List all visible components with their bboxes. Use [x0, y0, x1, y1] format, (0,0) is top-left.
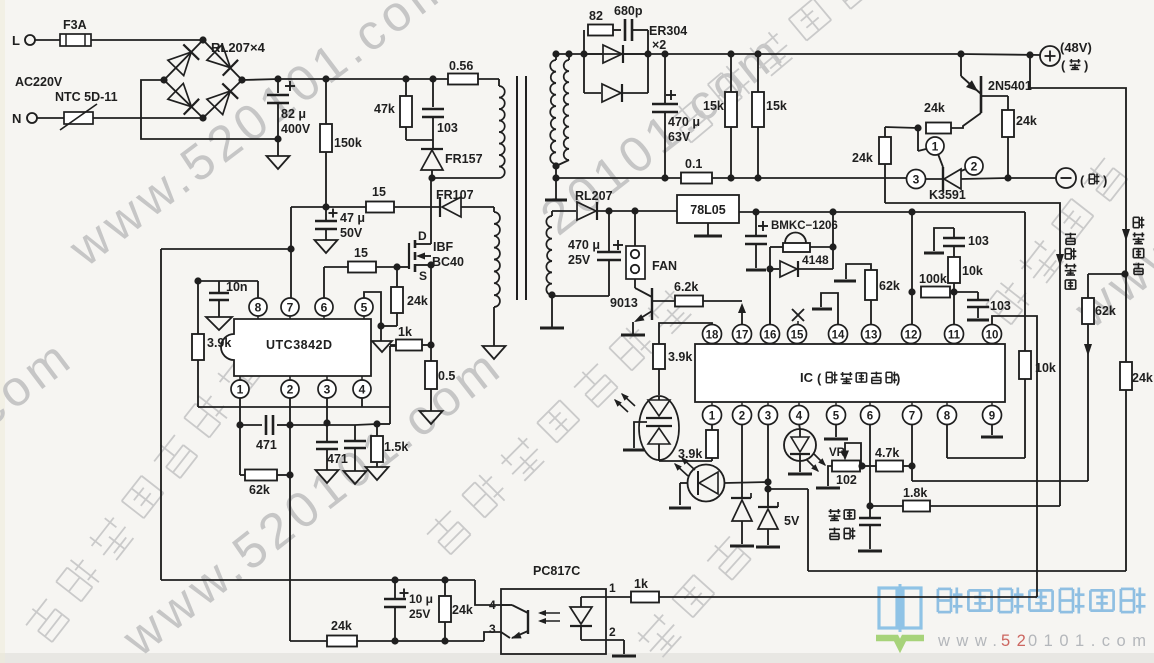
- ground 10n: [206, 317, 232, 330]
- wire FR157 anode to drain node: [431, 170, 433, 178]
- svg-text:3.9k: 3.9k: [668, 350, 692, 364]
- wire RT bus y407: [198, 406, 390, 408]
- pin 5 U1: [355, 298, 373, 316]
- node bridge top: [199, 36, 206, 43]
- wire 6.2k to pin17: [703, 300, 742, 302]
- ground pin9: [991, 424, 993, 435]
- node pin6: [866, 502, 873, 509]
- wire pin1 down: [711, 424, 713, 430]
- capacitor 470u25V: [608, 211, 610, 251]
- svg-text:): ): [1103, 173, 1107, 188]
- svg-text:24k: 24k: [1132, 371, 1153, 385]
- pin 2 U2: [733, 406, 752, 425]
- ground cap pin6: [858, 550, 882, 553]
- wire snubber junction: [406, 139, 433, 141]
- svg-text:24k: 24k: [407, 294, 428, 308]
- resistor 0.5 shunt: [430, 345, 432, 361]
- ground led D7: [788, 473, 812, 476]
- svg-text:103: 103: [968, 234, 989, 248]
- svg-text:9: 9: [989, 411, 995, 423]
- svg-text:6: 6: [867, 411, 873, 423]
- diode zener 5V pin3: [758, 506, 778, 508]
- resistor 24k v-divider: [1120, 362, 1132, 390]
- transformer primary winding: [499, 86, 505, 178]
- ground led tap: [623, 449, 645, 452]
- node pin5 gnd: [377, 322, 384, 329]
- svg-text:15k: 15k: [703, 99, 724, 113]
- wire pin6 to 15R: [323, 267, 325, 298]
- wire primary bottom to drain node: [432, 177, 499, 179]
- transistor Q1 MOSFET gate bar: [397, 266, 409, 268]
- node 10u top: [391, 576, 398, 583]
- IC U1 UTC3842D body: [221, 319, 371, 376]
- svg-text:5: 5: [833, 411, 840, 423]
- wire pin3 down: [326, 398, 328, 423]
- node sec bottom join: [552, 162, 559, 169]
- node pin2 a: [286, 421, 293, 428]
- svg-text:470 μ: 470 μ: [568, 238, 600, 252]
- capacitor 5V filter: [755, 212, 757, 236]
- resistor 15k B: [757, 54, 759, 92]
- pin 2 K3591: [961, 169, 966, 171]
- wire current sense feed: [885, 203, 1060, 506]
- led dual D5 bottom chip: [646, 425, 672, 427]
- node 470u25 top: [605, 207, 612, 214]
- wire fuse to bridge top: [91, 39, 203, 41]
- pin 17 U2: [733, 325, 752, 344]
- svg-text:78L05: 78L05: [690, 203, 725, 217]
- watermark h2: [423, 286, 694, 557]
- capacitor 471 comp: [240, 424, 262, 426]
- resistor 15 gate: [348, 262, 376, 273]
- resistor 24k opto-c: [444, 580, 446, 596]
- bridge rectifier RL207x4 frame: [164, 40, 242, 118]
- svg-text:3: 3: [913, 173, 920, 187]
- resistor 4.7k: [863, 465, 876, 467]
- svg-text:82: 82: [589, 9, 603, 23]
- wire 78L05 out 5V rail: [739, 211, 1025, 213]
- svg-text:FR107: FR107: [436, 188, 474, 202]
- capacitor 47u50V: [325, 207, 327, 220]
- svg-text:3: 3: [324, 383, 331, 397]
- node gate: [393, 263, 400, 270]
- svg-text:6.2k: 6.2k: [674, 280, 698, 294]
- wire vcc-left rail: [161, 248, 291, 250]
- svg-text:62k: 62k: [1095, 304, 1116, 318]
- arrow into pin17: [738, 303, 746, 313]
- pin 4 U1: [353, 380, 371, 398]
- svg-text:15: 15: [372, 185, 386, 199]
- wire opto pin1 to pin10 riser: [659, 596, 1037, 598]
- wire aux winding to ground: [493, 307, 495, 346]
- watermark w4: [530, 22, 795, 246]
- svg-text:3: 3: [489, 622, 496, 636]
- svg-text:17: 17: [736, 330, 749, 342]
- svg-text:L: L: [12, 33, 20, 48]
- svg-text:K3591: K3591: [929, 188, 966, 202]
- svg-text:1: 1: [709, 411, 716, 423]
- node snubber left: [580, 50, 587, 57]
- diode zener pin2: [731, 497, 751, 499]
- node 24k-c top: [441, 576, 448, 583]
- svg-text:BC40: BC40: [432, 255, 464, 269]
- svg-text:3: 3: [765, 411, 771, 423]
- transistor Q1 drain lead: [415, 243, 431, 245]
- svg-text:8: 8: [944, 411, 951, 423]
- svg-text:7: 7: [909, 411, 915, 423]
- wire base node to 24k vert: [885, 127, 918, 128]
- node pin1 a: [236, 421, 243, 428]
- pin 8 U1: [249, 298, 267, 316]
- svg-text:(: (: [1080, 173, 1085, 188]
- svg-text:15: 15: [791, 330, 804, 342]
- pin 12 U2: [902, 325, 921, 344]
- svg-text:82 μ: 82 μ: [281, 107, 306, 121]
- terminal + 48V: [1040, 46, 1060, 66]
- wire FR107 to aux winding: [461, 206, 494, 208]
- node 24k base left: [914, 124, 921, 131]
- scan shadow left edge: [0, 0, 5, 663]
- pin 10 U2: [983, 325, 1002, 344]
- svg-text:1: 1: [237, 383, 244, 397]
- node 24k-c bottom: [441, 637, 448, 644]
- resistor 82 snubber: [583, 30, 585, 54]
- node pin12 5V: [908, 208, 915, 215]
- capacitor pin6: [869, 506, 871, 517]
- svg-text:1k: 1k: [398, 325, 412, 339]
- svg-text:ER304: ER304: [649, 24, 687, 38]
- ground opto pin2: [612, 655, 636, 658]
- led D6 indicator: [688, 465, 725, 502]
- node VCC: [322, 203, 329, 210]
- transistor Q3 9013: [634, 279, 636, 288]
- wire pin7 down: [911, 424, 913, 481]
- wire buzzer right: [810, 246, 833, 248]
- node 103 top: [429, 75, 436, 82]
- node bridge bottom: [199, 114, 206, 121]
- svg-text:www.: www.: [937, 632, 1003, 650]
- resistor 1.5k: [376, 424, 378, 436]
- wire gate node up: [396, 267, 398, 287]
- svg-text:13: 13: [865, 330, 878, 342]
- resistor 0.56: [448, 74, 478, 85]
- resistor 10k chain: [1019, 351, 1031, 379]
- watermark h1: [22, 349, 264, 644]
- pin 13 U2: [862, 325, 881, 344]
- transistor Q1 source lead: [415, 264, 431, 266]
- wire C-bulk to ground node: [277, 103, 279, 139]
- wire L to fuse: [35, 39, 60, 41]
- diode RL207 sec: [552, 210, 576, 212]
- wire bridge right to HV rail: [242, 79, 278, 80]
- diode ER304 no1: [584, 53, 602, 55]
- node pin2 b: [286, 471, 293, 478]
- pin 18 U2: [703, 325, 722, 344]
- bridge diode D4 bottom-right: [207, 91, 230, 115]
- node v-sense 62k: [1121, 270, 1128, 277]
- svg-text:24k: 24k: [452, 603, 473, 617]
- svg-text:100k: 100k: [919, 272, 947, 286]
- capacitor 103 pin11b: [954, 291, 978, 293]
- label charging voltage: [1132, 217, 1134, 227]
- diode FR157: [421, 150, 443, 170]
- svg-text:D: D: [418, 229, 427, 243]
- wire pin12 riser: [911, 212, 913, 325]
- node C-bulk top: [274, 75, 281, 82]
- resistor 62k comp: [239, 470, 241, 475]
- node sec 0V: [552, 174, 559, 181]
- svg-text:1k: 1k: [634, 577, 648, 591]
- pin 16 U2: [761, 325, 780, 344]
- IC U2 body: [695, 344, 1005, 402]
- svg-text:10k: 10k: [1035, 361, 1056, 375]
- svg-text:24k: 24k: [331, 619, 352, 633]
- svg-text:10 μ: 10 μ: [409, 592, 433, 606]
- wire opto emitter rail: [290, 640, 484, 642]
- led D7 light arrows: [806, 459, 818, 471]
- node pin7-collector junction: [287, 245, 294, 252]
- pin 3 U1: [318, 380, 336, 398]
- diode 4148: [770, 268, 779, 270]
- led dual D5 top chip: [658, 396, 660, 400]
- svg-text:): ): [1084, 58, 1088, 73]
- diode FR107: [442, 197, 461, 217]
- terminal N: [27, 113, 37, 123]
- svg-text:3.9k: 3.9k: [207, 336, 231, 350]
- svg-text:400V: 400V: [281, 122, 311, 136]
- ground pin5: [380, 326, 382, 341]
- node emitter 2N5401: [957, 50, 964, 57]
- capacitor 470u63V: [664, 54, 666, 103]
- ground secondary: [555, 178, 557, 199]
- node 15kB bottom: [754, 174, 761, 181]
- node 1.5k top: [373, 420, 380, 427]
- svg-text:(: (: [1061, 58, 1066, 73]
- wire VR left ground: [828, 466, 832, 486]
- ground zener pin2: [730, 545, 754, 548]
- node pin3 a: [323, 419, 330, 426]
- node drain-snubber: [428, 174, 435, 181]
- svg-text:25V: 25V: [409, 607, 430, 621]
- ground 0.5: [420, 411, 443, 424]
- wire HV rail: [278, 78, 448, 80]
- ground 78L05: [707, 223, 709, 235]
- node 47k top: [402, 75, 409, 82]
- led dual D5: [639, 396, 679, 460]
- svg-text:(48V): (48V): [1060, 40, 1092, 55]
- svg-text:62k: 62k: [249, 483, 270, 497]
- wire fb bus y425: [290, 424, 355, 426]
- wire pin4 to RT bus: [361, 398, 363, 407]
- resistor 24k fb: [327, 636, 357, 647]
- node pin3 vsense: [764, 485, 771, 492]
- wire 0.56 to primary top: [478, 78, 499, 80]
- node 4148 anode: [766, 265, 773, 272]
- svg-text:103: 103: [990, 299, 1011, 313]
- svg-text:N: N: [12, 111, 21, 126]
- wire pin5 ground: [364, 292, 381, 326]
- logo site name: [937, 589, 940, 612]
- wire pin10 net: [992, 316, 1037, 597]
- pin 4 U2: [790, 406, 809, 425]
- watermark w2: [112, 336, 513, 663]
- svg-text:4: 4: [359, 383, 366, 397]
- svg-text:): ): [896, 371, 900, 386]
- resistor 1k sense: [390, 344, 396, 346]
- wire 0V rail to K3591: [712, 177, 906, 179]
- svg-text:2: 2: [739, 411, 745, 423]
- svg-text:2: 2: [971, 160, 978, 174]
- node 15kA top: [727, 50, 734, 57]
- wire secondary + rail: [556, 53, 961, 55]
- node + branch: [1026, 51, 1033, 58]
- wire pin4 down: [799, 424, 800, 429]
- scan shadow bottom edge: [0, 653, 1154, 663]
- wire 24k-gate to gnd node: [396, 313, 398, 326]
- svg-text:62k: 62k: [879, 279, 900, 293]
- wire pin3 down: [767, 424, 769, 507]
- wire led mid tap: [634, 422, 647, 448]
- pin 15 U2: [788, 325, 807, 344]
- node sec B top: [565, 50, 572, 57]
- svg-text:18: 18: [706, 330, 719, 342]
- opto light arrows: [540, 612, 560, 614]
- pin 1 U1: [231, 380, 249, 398]
- wire 150k to vcc node: [291, 206, 326, 208]
- node 470u63 bottom: [661, 174, 668, 181]
- arrow voltage sense: [1122, 229, 1130, 241]
- watermark w1: [58, 0, 464, 277]
- svg-text:24k: 24k: [924, 101, 945, 115]
- node 150k top: [322, 75, 329, 82]
- svg-text:6: 6: [321, 301, 328, 315]
- capacitor 103 snubber: [432, 79, 434, 107]
- svg-text:4: 4: [796, 411, 803, 423]
- watermark w7: [1064, 209, 1154, 340]
- svg-text:0.5: 0.5: [438, 369, 455, 383]
- svg-text:24k: 24k: [852, 151, 873, 165]
- node 5V rail buzzer: [829, 208, 836, 215]
- ground fan winding: [551, 295, 553, 327]
- node 5V cap: [752, 208, 759, 215]
- svg-text:F3A: F3A: [63, 18, 87, 32]
- resistor 6.2k: [675, 296, 703, 307]
- ground 471A: [316, 470, 339, 483]
- node fan winding bottom: [548, 291, 555, 298]
- wire pin8 vref: [257, 281, 259, 298]
- svg-text:FAN: FAN: [652, 259, 677, 273]
- node 15kA bottom: [727, 174, 734, 181]
- label charging current: [1065, 233, 1076, 235]
- svg-text:10k: 10k: [962, 264, 983, 278]
- wire buzzer left: [770, 246, 783, 248]
- node 10u bottom: [391, 637, 398, 644]
- svg-text:AC220V: AC220V: [15, 75, 63, 89]
- svg-text:4: 4: [489, 598, 496, 612]
- wire v-sense bottom route: [808, 570, 1126, 572]
- regulator K3591: [925, 178, 943, 180]
- svg-text:4.7k: 4.7k: [875, 446, 899, 460]
- capacitor 103 pin11: [953, 246, 955, 257]
- trimmer VR 102: [832, 461, 860, 472]
- svg-text:150k: 150k: [334, 136, 362, 150]
- svg-text:8: 8: [255, 301, 262, 315]
- wire N to NTC: [37, 117, 64, 119]
- transistor Q1 channel: [414, 240, 417, 248]
- bridge diode D3 bottom-left: [168, 83, 192, 106]
- pin 9 U2: [983, 406, 1002, 425]
- svg-text:IC: IC: [800, 370, 814, 385]
- pin 6 U1: [315, 298, 333, 316]
- node VR right: [858, 462, 865, 469]
- wire pin18 net: [659, 323, 712, 344]
- svg-text:11: 11: [948, 330, 961, 342]
- svg-text:7: 7: [287, 301, 294, 315]
- svg-text:1: 1: [932, 140, 939, 154]
- ground pin5: [835, 424, 837, 437]
- transformer core: [516, 76, 518, 300]
- capacitor filter B: [354, 425, 356, 440]
- resistor 3.9k led: [653, 344, 665, 369]
- wire vcc rail to 15R: [326, 206, 366, 208]
- connector FAN: [634, 211, 636, 246]
- resistor 24k ref-top: [879, 137, 891, 164]
- node buzzer right: [829, 243, 836, 250]
- bridge diode D2 top-right: [207, 44, 231, 67]
- svg-text:15: 15: [354, 246, 368, 260]
- wire pin2 down: [289, 398, 291, 641]
- optocoupler PC817C box: [501, 589, 606, 654]
- node FAN top: [631, 207, 638, 214]
- svg-text:9013: 9013: [610, 296, 638, 310]
- node collector-24k bottom: [1004, 174, 1011, 181]
- pin 6 U2: [861, 406, 880, 425]
- transformer secondary winding A: [555, 54, 557, 60]
- wire 5V to 10k chain: [1024, 212, 1026, 351]
- pin 2 U1: [281, 380, 299, 398]
- wire opto pin2: [581, 639, 624, 641]
- wire y425 to 1.5k: [355, 424, 377, 425]
- watermark h4: [985, 155, 1130, 326]
- ground 471B: [344, 471, 367, 484]
- svg-text:103: 103: [437, 121, 458, 135]
- capacitor 82u400V: [267, 94, 289, 97]
- wire pin16 riser: [769, 269, 771, 325]
- svg-text:1.5k: 1.5k: [384, 440, 408, 454]
- pin 5 U2: [827, 406, 846, 425]
- ground 62k pin13: [846, 264, 871, 279]
- thermistor NTC 5D-11: [64, 112, 93, 124]
- wire opto collector rail: [161, 579, 475, 581]
- svg-text:10n: 10n: [226, 280, 248, 294]
- wire pin11 riser: [953, 283, 955, 325]
- node source: [427, 261, 434, 268]
- wire rail to C-bulk: [277, 79, 279, 93]
- svg-text:4148: 4148: [802, 253, 829, 267]
- svg-text:12: 12: [905, 330, 918, 342]
- node bridge right: [238, 76, 245, 83]
- wire + sense route: [1030, 55, 1126, 571]
- svg-text:5V: 5V: [784, 514, 800, 528]
- node bridge left: [160, 76, 167, 83]
- svg-text:16: 16: [764, 330, 777, 342]
- wire secondary 0V rail left: [556, 177, 681, 179]
- pin 14 U2: [829, 325, 848, 344]
- ground led D6: [669, 507, 691, 510]
- pin 8 U2: [938, 406, 957, 425]
- svg-text:VR: VR: [829, 447, 846, 459]
- wire - rail to terminal: [1008, 177, 1056, 179]
